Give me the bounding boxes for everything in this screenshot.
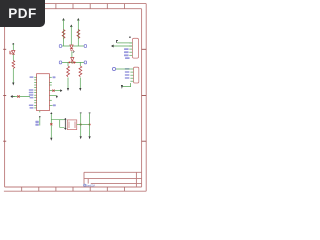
designator mark J1 — [129, 37, 131, 38]
wire horizontal net 1 — [62, 45, 85, 47]
tick top right rail 2 — [89, 112, 91, 114]
netport left net1 — [59, 45, 61, 48]
diode D2 — [71, 58, 75, 64]
junction dot net2 a — [69, 62, 71, 64]
wire branch to crystal lower stub — [60, 119, 65, 121]
junction cross on VCC wire — [52, 90, 54, 92]
ground arrow rail 2 — [89, 136, 91, 139]
wire vertical from VCC to R1 — [63, 20, 65, 47]
U1 right pins — [49, 77, 52, 105]
netport right net2 — [84, 61, 86, 64]
frame row tick marks right — [142, 49, 147, 141]
J1 pin labels — [124, 48, 130, 59]
power flag arrow (top of R, net VCC) — [63, 19, 65, 21]
wire U1 right lower — [49, 95, 56, 97]
right rail 2 — [89, 113, 91, 136]
resistor R4 — [79, 66, 82, 77]
wire R5 to ground — [12, 69, 14, 83]
right rail 1 — [80, 113, 82, 136]
resistor R3 — [67, 66, 70, 77]
netport left net2 — [59, 61, 61, 64]
arrow down at end — [56, 96, 58, 99]
sheet frame outer border — [4, 4, 146, 192]
tick top of branch — [50, 112, 52, 113]
arrow right end — [60, 89, 62, 92]
ground arrow rail 1 — [80, 136, 82, 139]
wire horizontal net 2 — [62, 61, 85, 63]
junction dot net2 b — [74, 62, 76, 64]
wire LED chain top — [12, 44, 14, 50]
junction cross on wire — [17, 95, 19, 97]
LED D3 — [10, 51, 15, 55]
wire vertical from VCC to R2 — [77, 20, 79, 47]
wire D1 to net2 — [71, 52, 73, 59]
capacitor C1 plates — [64, 118, 66, 130]
wire vertical middle — [70, 26, 72, 45]
title block — [84, 172, 142, 187]
wire J1 pin2 — [113, 45, 133, 47]
ground arrow under R3 — [67, 88, 69, 91]
crystal branch vertical wire — [50, 114, 52, 138]
U1 left pins — [34, 77, 36, 108]
diode D1 — [70, 45, 74, 51]
wire LED to R5 — [12, 55, 14, 61]
wire R3 to ground — [67, 78, 69, 89]
tick top right rail 1 — [80, 112, 82, 114]
frame column tick marks bottom — [22, 187, 125, 191]
wire stub to R4 — [79, 62, 81, 66]
ground arrow under R4 — [79, 88, 81, 91]
U1 bottom pin wire — [39, 111, 41, 113]
ground arrow under R5 — [12, 83, 14, 86]
net flag arrow left of wire — [11, 95, 15, 97]
frame row tick marks left — [3, 49, 6, 141]
J2 pin labels — [125, 68, 130, 79]
connector J1 body — [132, 38, 138, 58]
U1 left net labels — [29, 76, 34, 108]
power flag arrow (top of R2) — [77, 19, 79, 21]
U1 right net label top — [53, 76, 56, 78]
value label LED — [9, 51, 10, 54]
tick on bottom wire — [39, 116, 41, 118]
resistor R1 — [62, 30, 65, 39]
PDF badge overlay — [0, 0, 45, 27]
wire horizontal into U1 — [13, 96, 30, 98]
arrow left end J1 pin2 — [111, 45, 114, 48]
wire J1 pin1 — [117, 42, 132, 44]
junction cross on branch — [50, 123, 52, 125]
IC U1 body — [37, 74, 50, 111]
wire stub to R3 — [67, 62, 69, 66]
wire J2 pin1 — [116, 68, 130, 70]
crystal electrodes — [69, 122, 75, 129]
power flag arrow (middle) — [70, 25, 72, 27]
J2 pins — [130, 69, 133, 81]
J1 pins — [129, 43, 132, 55]
wire R4 to ground — [79, 78, 81, 89]
netport right net1 — [84, 45, 86, 48]
netport circle J2 — [112, 67, 115, 70]
wire U1 right to VCC bar — [49, 90, 60, 92]
resistor R5 — [12, 61, 15, 69]
power dot top of LED chain — [12, 43, 14, 45]
net flag blue below U1 — [35, 121, 38, 126]
junction dot rail 2 — [89, 124, 91, 126]
wire crystal to right rail — [77, 124, 81, 126]
connector J2 body — [134, 67, 139, 83]
EasyEDA logo text in title block — [84, 184, 96, 188]
U1 right net label bottom — [53, 104, 56, 106]
ground arrow bottom of branch — [50, 138, 52, 141]
wire J2 bottom — [122, 83, 131, 87]
ground arrow J2 — [121, 85, 123, 89]
sheet frame inner border — [5, 9, 142, 187]
svg-text:EasyEDA: EasyEDA — [86, 184, 96, 188]
junction dot right rail — [80, 124, 82, 126]
wire branch to crystal upper — [51, 120, 64, 128]
crystal X1 body — [67, 120, 76, 130]
wire rail1 to rail2 — [81, 124, 90, 126]
resistor R2 — [77, 30, 80, 39]
frame column tick marks top — [22, 4, 125, 9]
arrow mark on D1 — [73, 51, 75, 54]
flag glyph on pin1 wire — [116, 41, 118, 43]
